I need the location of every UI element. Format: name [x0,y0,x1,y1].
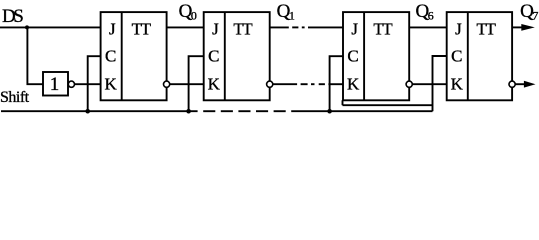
svg-text:Q6: Q6 [416,1,434,23]
svg-text:DS: DS [2,6,23,27]
svg-text:C: C [208,47,219,66]
svg-text:K: K [347,75,360,94]
svg-text:TT: TT [373,19,393,38]
svg-text:J: J [455,19,462,38]
svg-text:Q7: Q7 [520,1,538,23]
svg-text:K: K [105,75,118,94]
svg-text:C: C [451,47,462,66]
svg-text:TT: TT [477,19,497,38]
svg-text:J: J [351,19,358,38]
svg-text:TT: TT [132,19,152,38]
svg-text:Shift: Shift [0,89,30,106]
svg-text:J: J [212,19,219,38]
svg-text:C: C [347,47,358,66]
svg-text:TT: TT [233,19,253,38]
svg-text:Q0: Q0 [179,1,197,23]
svg-text:C: C [105,47,116,66]
svg-text:Q1: Q1 [277,1,295,23]
svg-text:K: K [208,75,221,94]
svg-text:J: J [109,19,116,38]
svg-text:K: K [451,75,464,94]
svg-text:1: 1 [50,74,60,95]
